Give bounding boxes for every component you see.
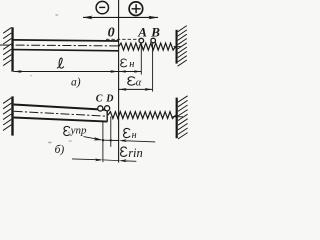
node A circle <box>139 38 144 43</box>
vertical reference line through O <box>118 0 120 163</box>
extension line B <box>152 43 154 91</box>
svg-text:A: A <box>137 24 147 39</box>
svg-text:а): а) <box>71 77 81 89</box>
spring (fig b) <box>108 112 176 119</box>
svg-text:rin: rin <box>128 146 143 160</box>
extension line A <box>140 43 142 74</box>
label eps_gip <box>121 146 143 160</box>
extension line C' <box>102 122 104 163</box>
leader arrow eps_upr <box>84 137 103 141</box>
svg-text:0: 0 <box>108 25 115 40</box>
svg-text:α: α <box>136 78 142 89</box>
svg-text:б): б) <box>55 144 65 156</box>
spring (fig a) <box>119 43 176 50</box>
scan specks <box>56 14 59 16</box>
dimension line fig b upper <box>102 139 155 142</box>
svg-text:упр: упр <box>70 125 87 137</box>
plus sign circle <box>129 2 143 16</box>
dimension line fig b lower <box>72 159 136 163</box>
dimension eps_alpha <box>119 88 152 91</box>
left wall (fig a) <box>3 27 14 71</box>
node B circle <box>151 38 156 43</box>
svg-text:н: н <box>129 59 134 70</box>
rod (fig b) <box>14 105 108 122</box>
dimension eps_n (fig a) <box>119 70 141 73</box>
rod (fig a) <box>0 40 118 51</box>
right wall (fig a) <box>174 26 187 67</box>
label eps_alpha <box>128 77 142 89</box>
label l <box>57 58 64 68</box>
label eps_n (fig a) <box>121 59 135 70</box>
label eps_n (fig b) <box>124 128 137 141</box>
left arrowhead <box>83 16 93 20</box>
svg-text:D: D <box>105 94 113 105</box>
right wall (fig b) <box>173 96 188 139</box>
svg-text:C: C <box>96 94 103 105</box>
right arrowhead <box>148 16 158 20</box>
minus sign circle <box>96 1 108 13</box>
extension line D' <box>110 117 112 147</box>
label eps_upr <box>64 125 87 137</box>
node D circle <box>105 106 110 111</box>
dashed displaced-top line to A <box>106 38 139 40</box>
L dimension <box>14 70 119 73</box>
svg-text:н: н <box>132 130 137 141</box>
node C circle <box>98 106 103 111</box>
svg-text:B: B <box>150 24 160 39</box>
left wall (fig b) <box>3 96 14 135</box>
axis line <box>83 16 158 18</box>
